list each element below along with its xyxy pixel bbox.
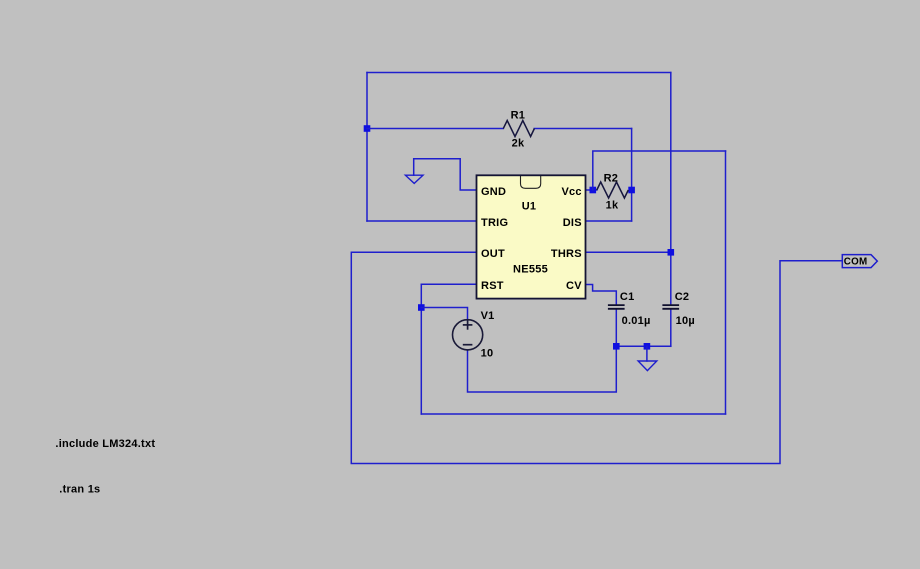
IC notch: [521, 176, 541, 188]
wire RST horizontal: [421, 283, 476, 285]
node junction at R1 left: [364, 125, 371, 132]
wire Vcc junction up and right to V+ rail corner: [593, 151, 726, 190]
svg-text:RST: RST: [481, 280, 504, 292]
svg-text:U1: U1: [522, 201, 537, 213]
wire V+ rail right vertical: [725, 151, 727, 414]
svg-text:THRS: THRS: [551, 248, 582, 260]
svg-text:C1: C1: [620, 291, 635, 303]
wire V+ rail left vertical up to RST row: [420, 284, 422, 414]
voltage source V1: [453, 310, 495, 360]
node junction at V1 top tee: [418, 304, 425, 311]
wire V+ rail bottom horizontal: [421, 413, 725, 415]
svg-text:R2: R2: [604, 173, 619, 185]
svg-text:10: 10: [481, 348, 494, 360]
resistor R1: [503, 109, 534, 149]
svg-text:GND: GND: [481, 186, 506, 198]
node junction at R2 left / Vcc: [590, 187, 597, 194]
wire C2 bottom lead: [670, 309, 672, 347]
svg-text:NE555: NE555: [513, 264, 548, 276]
wire junction to V1 top: [421, 308, 467, 320]
wire ground stub: [646, 346, 648, 361]
svg-text:R1: R1: [511, 109, 526, 121]
wire THRS horizontal: [586, 251, 671, 253]
wire ground rail horizontal: [616, 345, 671, 347]
wire V1 bottom to ground rail: [468, 346, 617, 392]
wire top loop horizontal: [367, 72, 671, 74]
svg-text:OUT: OUT: [481, 248, 505, 260]
svg-text:2k: 2k: [512, 137, 525, 149]
net flag COM: [842, 255, 877, 268]
capacitor C1: [608, 291, 651, 327]
svg-text:TRIG: TRIG: [481, 217, 508, 229]
wire R1 right lead: [534, 128, 631, 130]
svg-text:0.01µ: 0.01µ: [622, 315, 651, 327]
wire right vertical from R1 down through R2 right to DIS row: [631, 129, 633, 222]
wire C1 bottom lead: [615, 309, 617, 347]
wire GND pin to ground symbol: [414, 159, 477, 190]
wire long vertical from top loop to C2 top (through THRS junction): [670, 73, 672, 306]
wire CV pin to C1 top: [586, 285, 617, 306]
svg-text:1k: 1k: [606, 199, 619, 211]
svg-text:C2: C2: [675, 291, 690, 303]
wire TRIG horizontal: [367, 220, 477, 222]
capacitor C2: [662, 291, 695, 327]
ground symbol bottom: [638, 361, 657, 371]
node junction at R2 right: [628, 187, 635, 194]
op-amp/IC U1 NE555 body: [477, 175, 586, 298]
svg-text:V1: V1: [481, 310, 495, 322]
ground symbol top left: [405, 175, 423, 183]
wire R1 left lead: [367, 128, 503, 130]
svg-text:COM: COM: [844, 257, 868, 268]
wire DIS horizontal: [586, 220, 632, 222]
svg-text:.include LM324.txt: .include LM324.txt: [55, 438, 155, 450]
node junction at ground stub: [644, 343, 651, 350]
resistor R2: [597, 173, 629, 212]
svg-text:.tran 1s: .tran 1s: [59, 483, 100, 495]
wire Vcc pin to R2 left: [586, 189, 597, 191]
svg-text:DIS: DIS: [563, 217, 582, 229]
wire OUT to COM loop: [351, 252, 842, 463]
node junction at C1 bottom: [613, 343, 620, 350]
node junction at THRS / C2 line: [668, 249, 675, 256]
svg-text:10µ: 10µ: [676, 315, 695, 327]
svg-text:CV: CV: [566, 280, 582, 292]
wire left vertical of top loop down to TRIG row: [366, 73, 368, 222]
svg-text:Vcc: Vcc: [561, 186, 581, 198]
